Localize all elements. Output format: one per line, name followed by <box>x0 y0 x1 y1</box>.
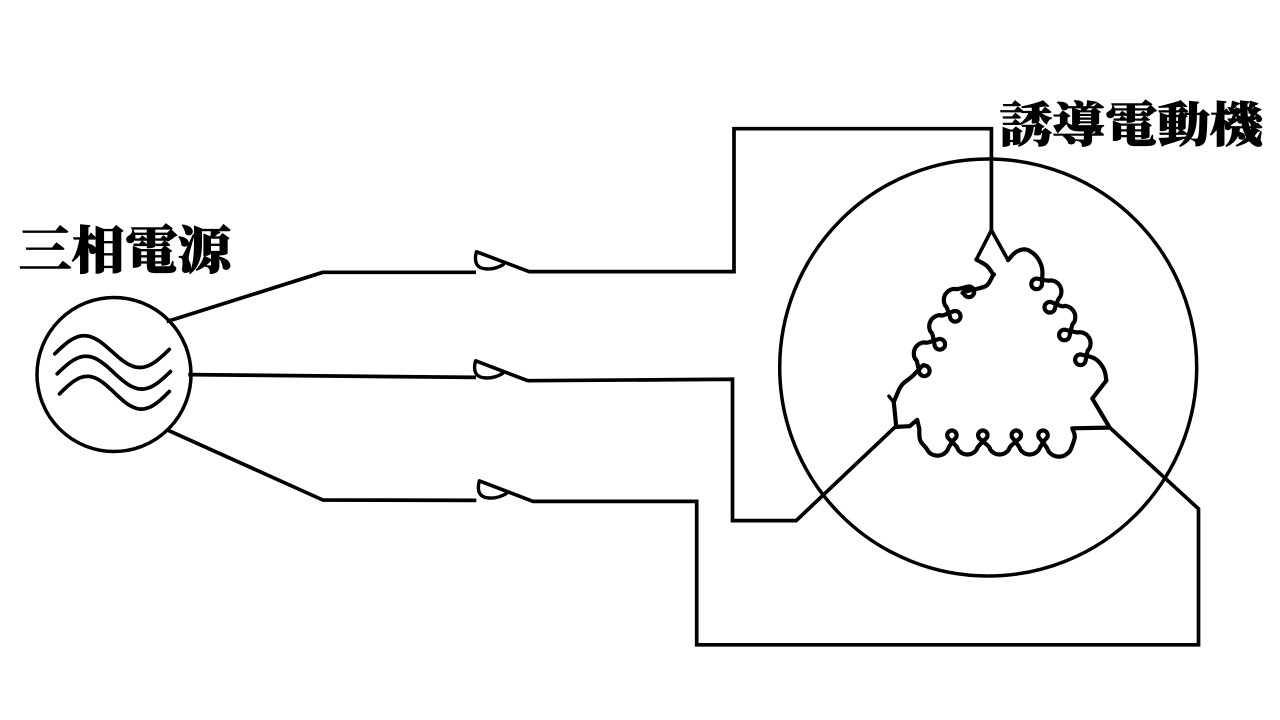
delta apex node (top vertex V-notch) <box>976 230 1008 260</box>
induction motor M1 stator circle <box>780 159 1197 576</box>
G1 sine wave 1 <box>55 336 170 368</box>
switch S1 blade <box>477 252 529 272</box>
G1 sine wave 3 <box>60 376 170 409</box>
wire phase3: switch S3 to delta bottom-right vertex (via bottom bus) <box>532 427 1198 644</box>
delta winding L2 (right coil) <box>1008 249 1109 427</box>
winding L1 end barb (arrowhead at bottom-left vertex) <box>889 396 894 402</box>
switch S3 hinge hook <box>478 482 506 498</box>
switch S1 hinge hook <box>475 253 503 269</box>
wire phase3: source to switch S3 <box>167 430 477 501</box>
wire phase1: source to switch S1 <box>167 272 476 321</box>
delta winding L3 (bottom coil) with start barb and end tick <box>896 420 1109 457</box>
switch S2 blade <box>476 361 528 381</box>
switch S2 hinge hook <box>475 362 503 378</box>
label: 三相電源 (three-phase source) <box>20 224 230 274</box>
switch S3 blade <box>480 481 533 501</box>
AC source G1 (three-phase) circle <box>37 298 191 452</box>
label: 誘導電動機 (induction motor) <box>1001 100 1262 147</box>
wire phase2: switch S2 to delta bottom-left vertex <box>528 379 896 520</box>
G1 sine wave 2 <box>57 356 170 389</box>
wire phase1: switch S1 to motor top (via top bus) <box>529 129 992 272</box>
wire phase2: source to switch S2 <box>188 375 476 378</box>
delta winding L1 (left coil) <box>894 260 994 427</box>
